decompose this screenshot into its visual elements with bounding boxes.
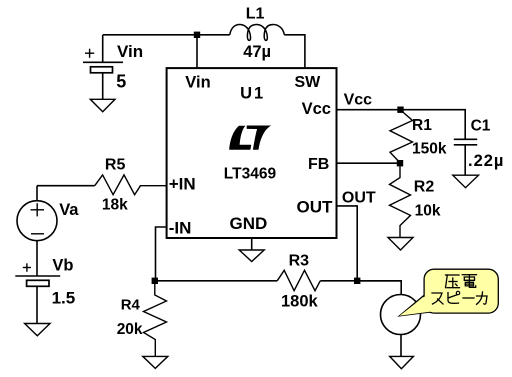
- svg-text:.22µ: .22µ: [468, 152, 504, 170]
- callout text 圧電 (drawn glyphs): [446, 275, 477, 288]
- svg-text:150k: 150k: [412, 140, 447, 157]
- svg-text:R1: R1: [412, 117, 432, 134]
- svg-text:1.5: 1.5: [52, 288, 76, 307]
- wire (piezo to ground): [400, 335, 402, 357]
- voltage source Va (circle): [17, 186, 57, 276]
- svg-text:R4: R4: [121, 297, 141, 314]
- LT logo: [229, 126, 271, 150]
- resistor R3: [277, 270, 320, 290]
- svg-text:GND: GND: [230, 214, 268, 233]
- svg-text:Vin: Vin: [185, 74, 210, 92]
- svg-text:R3: R3: [289, 253, 310, 270]
- svg-text:10k: 10k: [415, 202, 441, 219]
- ground (below C1): [453, 175, 479, 188]
- svg-text:180k: 180k: [281, 292, 319, 310]
- resistor R5: [95, 175, 166, 195]
- svg-text:R2: R2: [414, 179, 435, 196]
- resistor R1: [390, 110, 413, 163]
- wire (Va to R5): [37, 185, 95, 187]
- junction node (R4 / R3 / -IN): [152, 278, 158, 284]
- svg-text:18k: 18k: [102, 196, 128, 213]
- svg-text:Va: Va: [59, 201, 79, 219]
- callout text スピーカ (drawn glyphs): [432, 291, 487, 304]
- svg-text:Vb: Vb: [52, 256, 73, 274]
- カ: [477, 292, 488, 304]
- svg-text:U1: U1: [240, 85, 265, 103]
- piezo speaker (load circle): [381, 295, 421, 335]
- 圧: [446, 275, 460, 288]
- ー: [463, 297, 474, 299]
- svg-text:47µ: 47µ: [243, 43, 271, 61]
- svg-text:Vin: Vin: [117, 42, 143, 61]
- ス: [432, 293, 443, 304]
- svg-text:OUT: OUT: [297, 197, 334, 216]
- svg-text:C1: C1: [471, 118, 491, 135]
- wire (L1 to SW pin): [284, 35, 305, 67]
- junction node (OUT / R3 / piezo): [354, 278, 360, 284]
- IC U1 box: [167, 68, 337, 238]
- ground (below R2): [388, 238, 413, 251]
- junction node (FB / R1 / R2): [397, 160, 403, 166]
- ground (GND pin): [251, 238, 253, 250]
- svg-text:OUT: OUT: [342, 189, 376, 206]
- svg-text:+IN: +IN: [169, 174, 196, 193]
- wire (R3 to OUT node): [320, 280, 401, 282]
- svg-text:Vcc: Vcc: [344, 92, 373, 109]
- svg-text:LT3469: LT3469: [224, 165, 277, 182]
- capacitor C1: [454, 139, 477, 175]
- resistor R2: [390, 163, 411, 237]
- battery Vb: [15, 263, 60, 323]
- ground (below R4): [143, 356, 168, 368]
- svg-text:5: 5: [116, 71, 126, 91]
- svg-text:R5: R5: [105, 157, 126, 174]
- svg-text:-IN: -IN: [169, 219, 192, 238]
- svg-text:Vcc: Vcc: [302, 100, 331, 118]
- wire (OUT pin down to output node): [337, 206, 358, 281]
- junction node (Vcc / R1): [397, 107, 403, 113]
- svg-text:L1: L1: [246, 6, 265, 23]
- 電: [462, 275, 476, 288]
- svg-text:SW: SW: [295, 74, 322, 91]
- wire (junction down to Vin pin): [196, 35, 198, 67]
- resistor R4: [144, 281, 167, 356]
- wire (Vcc pin to R1 and C1): [337, 110, 466, 140]
- ground (below Vin source): [90, 99, 115, 111]
- junction node (top rail / Vin pin): [194, 32, 200, 38]
- callout balloon 圧電スピーカ: [400, 269, 499, 316]
- ground (below piezo): [390, 356, 414, 368]
- svg-text:FB: FB: [308, 156, 329, 173]
- ピ: [448, 291, 460, 303]
- svg-text:20k: 20k: [117, 321, 143, 338]
- wire (feedback node to R3): [155, 280, 277, 282]
- wire (-IN pin down to feedback node): [156, 227, 167, 281]
- inductor L1: [230, 25, 284, 41]
- voltage source Vin (battery symbol): [83, 35, 123, 99]
- ground (below Vb): [25, 324, 50, 336]
- wire (FB pin to R1/R2 junction): [337, 162, 401, 164]
- wire (Vin source to L1 / Vin pin, top rail): [103, 34, 230, 36]
- wire (output node to piezo speaker): [357, 281, 401, 295]
